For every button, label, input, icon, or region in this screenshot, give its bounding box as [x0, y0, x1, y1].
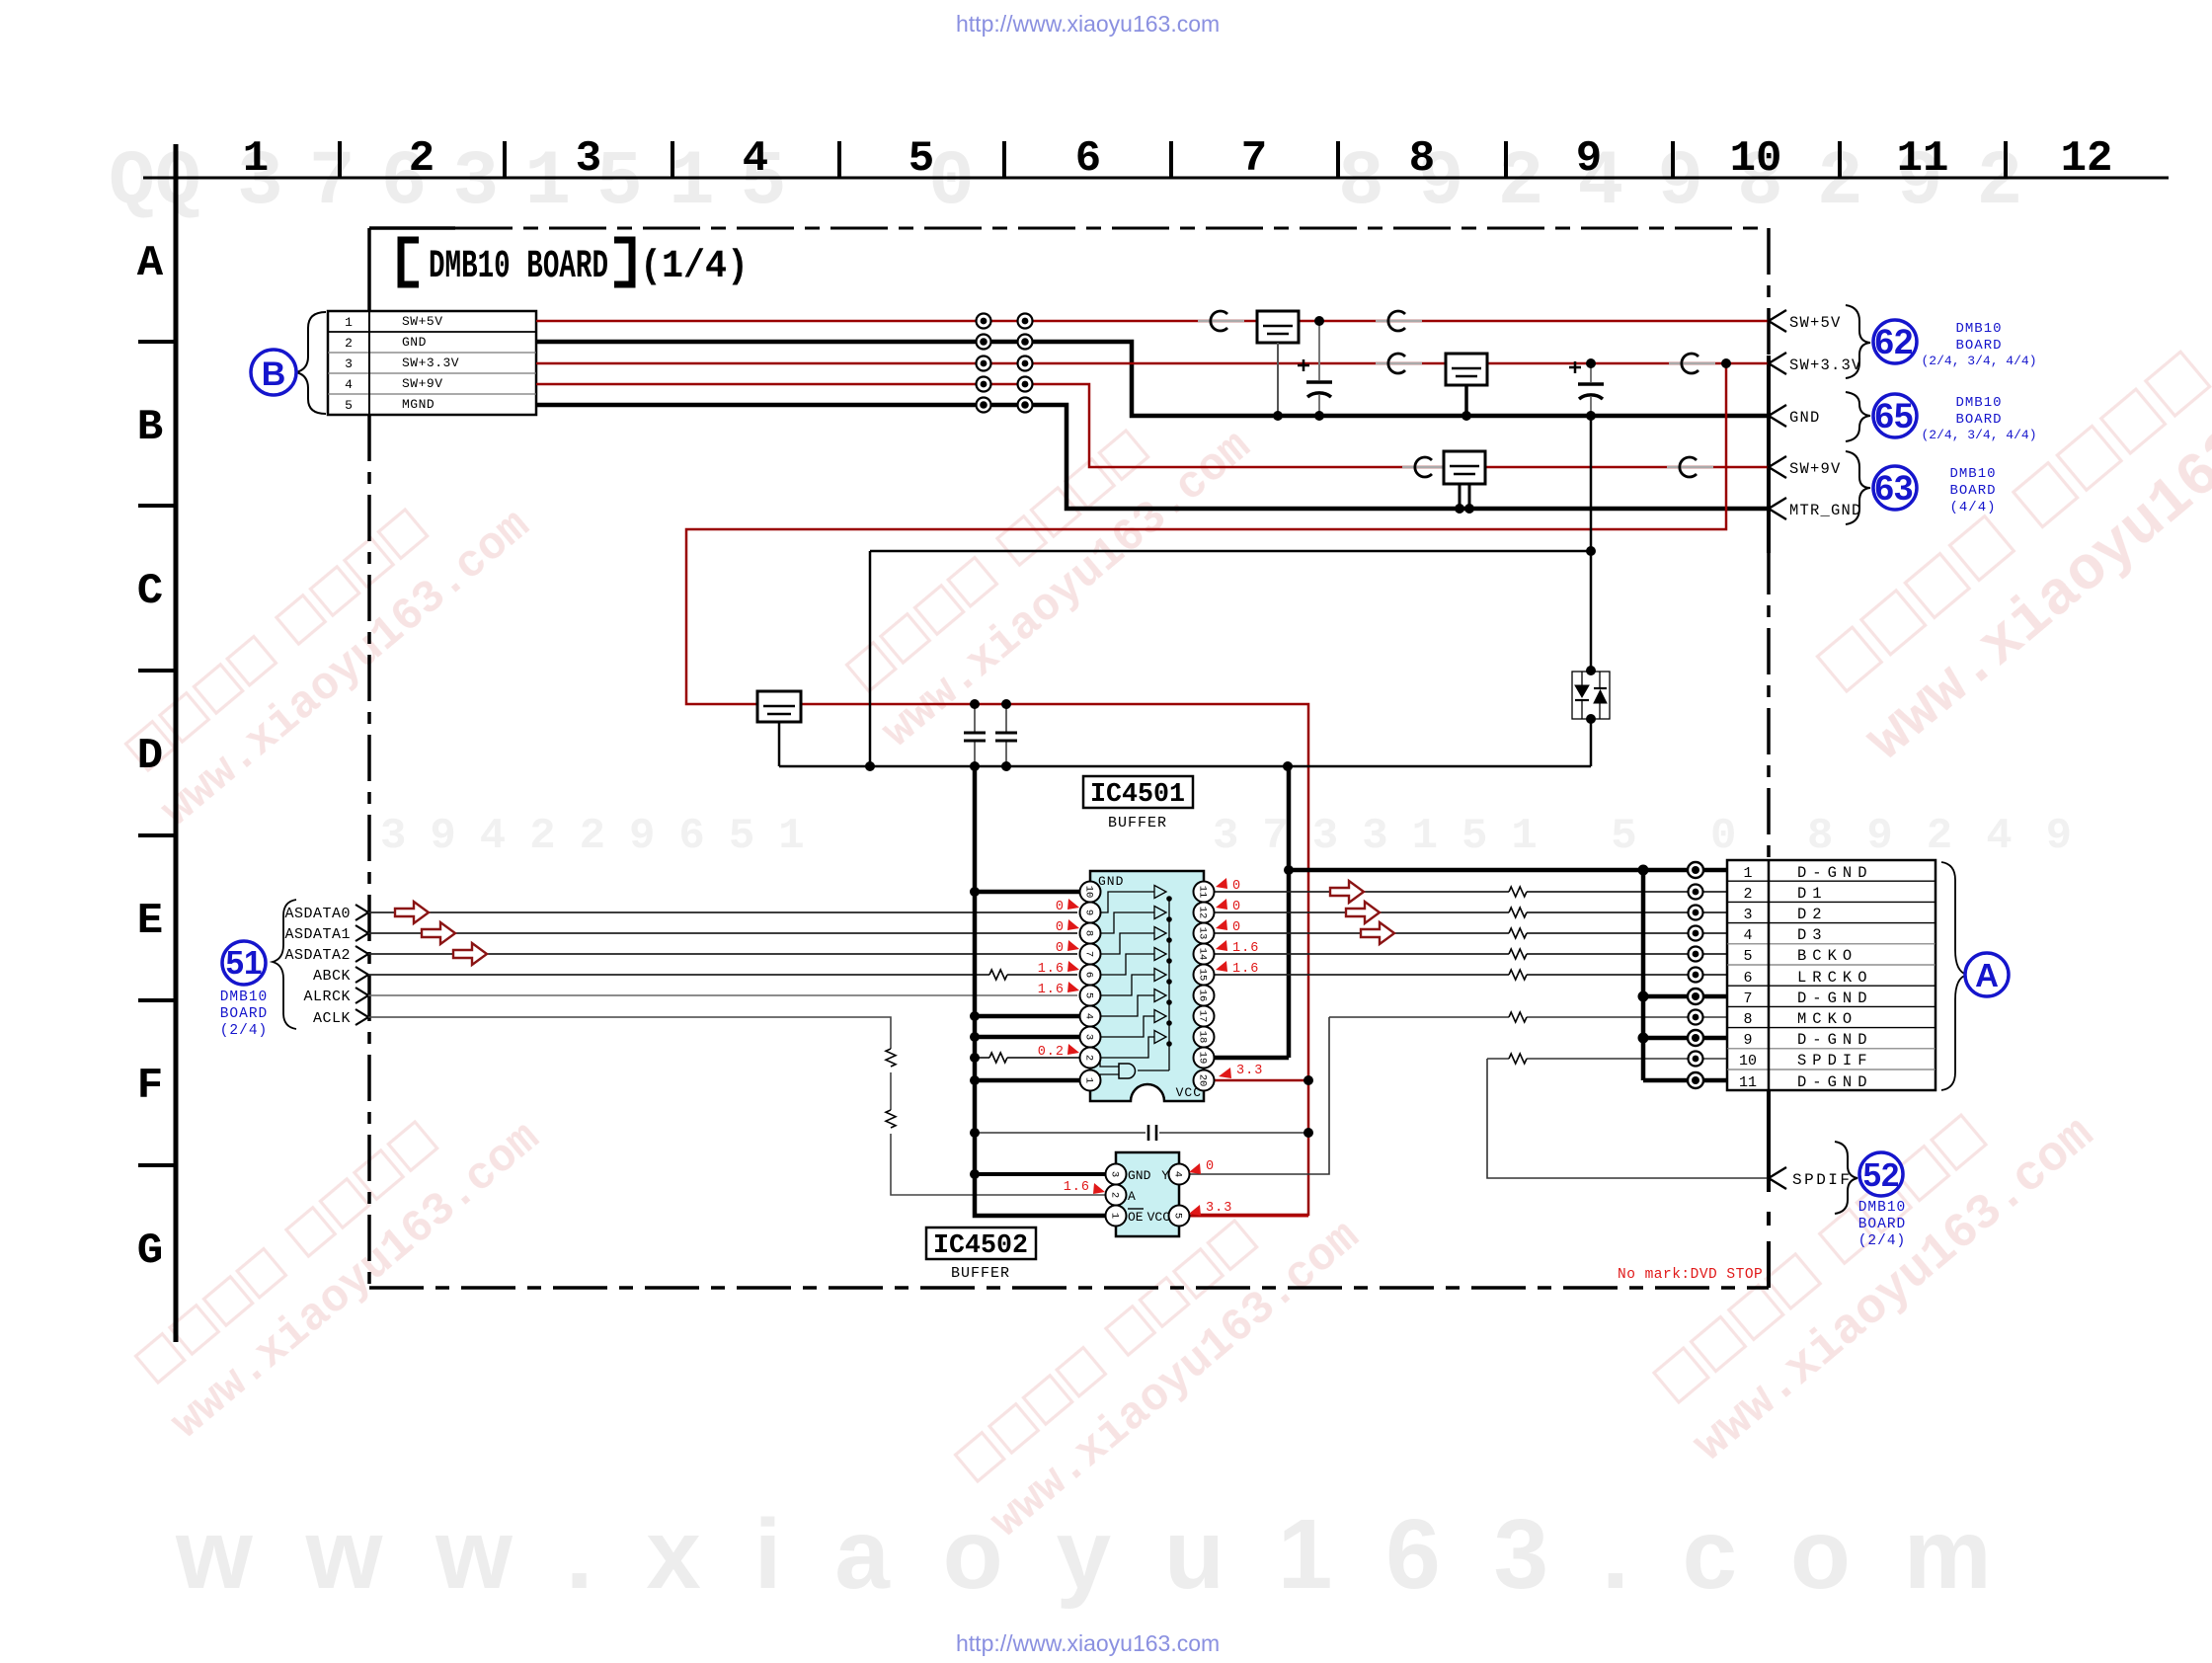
svg-text:D: D: [137, 732, 163, 781]
connector circle 52: [1859, 1152, 1903, 1196]
svg-text:3.3: 3.3: [1206, 1201, 1232, 1216]
wire MCKO row8: [1329, 1016, 1727, 1018]
svg-text:BOARD: BOARD: [1955, 338, 2002, 354]
svg-text:D3: D3: [1797, 926, 1828, 944]
svg-text:3733151 5 0: 3733151 5 0: [1213, 812, 1760, 861]
wire SPDIF to border: [1487, 1059, 1769, 1178]
svg-text:9: 9: [1083, 910, 1095, 915]
svg-text:3: 3: [576, 134, 601, 184]
label DMB10 BOARD 51: [220, 990, 269, 1039]
resistor vertical #2 on ACLK: [886, 1110, 896, 1128]
svg-text:1: 1: [345, 315, 353, 330]
svg-text:SW+9V: SW+9V: [402, 376, 443, 391]
svg-text:2: 2: [409, 134, 434, 184]
arrowhead MTR_GND out: [1769, 498, 1786, 519]
svg-text:2: 2: [1743, 886, 1752, 903]
svg-text:www.xiaoyu163.com: www.xiaoyu163.com: [152, 500, 540, 836]
svg-text:1.6: 1.6: [1038, 962, 1065, 977]
pink diagonal watermarks: [115, 265, 2212, 1548]
arrowhead SW+9V out: [1769, 456, 1786, 478]
brace 62: [1846, 305, 1870, 378]
electrolytic cap C+ on SW+3.3V: [1569, 361, 1604, 417]
svg-text:4: 4: [345, 377, 353, 392]
svg-text:C: C: [137, 567, 163, 616]
svg-text:GND: GND: [1098, 874, 1124, 889]
vias at connector A: [1688, 862, 1703, 1088]
svg-text:52: 52: [1863, 1156, 1900, 1193]
svg-text:12: 12: [1197, 907, 1209, 919]
GND stub row7: [1643, 994, 1727, 999]
hollow arrow on ASDATA0: [395, 902, 429, 923]
brace B: [296, 312, 326, 414]
brace A: [1941, 862, 1967, 1090]
connector A table: [1727, 860, 1935, 1090]
svg-text:0.2: 0.2: [1038, 1045, 1065, 1060]
svg-text:11: 11: [1739, 1074, 1757, 1091]
svg-text:SW+3.3V: SW+3.3V: [402, 356, 459, 370]
svg-text:89249: 89249: [1807, 812, 2105, 861]
svg-text:D1: D1: [1797, 885, 1828, 903]
svg-text:3.3: 3.3: [1236, 1064, 1263, 1078]
board outline right (dash-dot): [1767, 228, 1771, 860]
svg-text:BOARD: BOARD: [1949, 483, 1996, 499]
pin numbers: [1083, 886, 1209, 1087]
svg-text:4: 4: [1743, 927, 1752, 944]
column ticks: [340, 141, 2006, 178]
wire pin3 GND stub: [975, 1172, 1108, 1176]
GND bus vertical x987: [975, 766, 1108, 1216]
svg-text:(2/4, 3/4, 4/4): (2/4, 3/4, 4/4): [1921, 354, 2036, 368]
svg-text:4: 4: [1083, 1013, 1095, 1019]
svg-text:51: 51: [226, 944, 263, 981]
wire ACLK down to IC4502: [368, 1017, 1108, 1195]
svg-text:BOARD: BOARD: [1858, 1217, 1907, 1232]
svg-text:SW+5V: SW+5V: [1789, 314, 1842, 332]
svg-text:MGND: MGND: [402, 397, 434, 412]
wire ASDATA1: [368, 932, 1077, 934]
svg-text:0: 0: [1232, 900, 1241, 914]
svg-text:2: 2: [345, 336, 353, 351]
wire pin19 GND to riser: [1212, 1056, 1289, 1061]
svg-text:1: 1: [1109, 1213, 1121, 1219]
svg-text:MCKO: MCKO: [1797, 1010, 1857, 1028]
svg-text:7: 7: [1743, 990, 1752, 1007]
connector circle 65: [1873, 394, 1917, 437]
red probe arrows IC4502: [1093, 1163, 1201, 1216]
IC4502 body: [1116, 1152, 1179, 1236]
svg-text:0: 0: [1206, 1159, 1215, 1174]
wire MGND (thick): [536, 405, 1769, 509]
title bracket right: [614, 240, 632, 284]
resistors on D1,D2,D3,BCKO,LRCKO: [1509, 887, 1527, 980]
svg-text:www.xiaoyu163.com: www.xiaoyu163.com: [1854, 321, 2212, 776]
svg-text:DMB10: DMB10: [220, 990, 269, 1005]
wire ABCK with resistor: [368, 974, 1077, 976]
ruler top line: [143, 177, 2169, 180]
svg-text:63: 63: [1875, 469, 1914, 508]
svg-text:0: 0: [1232, 879, 1241, 894]
svg-text:15: 15: [1197, 969, 1209, 982]
svg-text:IC4502: IC4502: [933, 1231, 1028, 1261]
svg-text:No mark:DVD STOP: No mark:DVD STOP: [1618, 1267, 1763, 1283]
junction dot pin3 bus: [970, 1169, 980, 1179]
row letters: [137, 239, 164, 1276]
svg-text:2: 2: [1109, 1192, 1121, 1198]
decoupling cap C at x1019: [995, 704, 1017, 766]
svg-text:http://www.xiaoyu163.com: http://www.xiaoyu163.com: [956, 11, 1220, 37]
red labels IC4502: [1064, 1159, 1233, 1216]
svg-text:DMB10: DMB10: [1949, 466, 1996, 482]
connector circle 62: [1873, 320, 1917, 363]
svg-text:B: B: [137, 403, 163, 452]
svg-text:BCKO: BCKO: [1797, 947, 1857, 965]
wire ASDATA2: [368, 953, 1077, 955]
board outline left (dash-dot): [367, 415, 371, 1288]
svg-text:1: 1: [243, 134, 269, 184]
svg-text:10: 10: [1730, 134, 1782, 184]
row ticks: [138, 342, 176, 1165]
svg-text:394229651: 394229651: [380, 812, 829, 861]
svg-text:5: 5: [1083, 992, 1095, 998]
board outline top (dash-dot): [455, 227, 1769, 230]
svg-text:19: 19: [1197, 1052, 1209, 1065]
ferrite bead C on SW+3.3V #2: [1669, 354, 1715, 373]
ferrite bead C on SW+9V #1: [1402, 457, 1449, 477]
wire ALRCK: [368, 994, 1077, 996]
svg-text:6: 6: [1743, 970, 1752, 987]
wire SW+9V: [536, 384, 1769, 467]
svg-text:A: A: [1128, 1189, 1136, 1204]
column numbers: [243, 134, 2113, 184]
GND bridge horizontal y558: [870, 550, 1591, 553]
red probe arrows right: [1216, 878, 1231, 1078]
brace 51: [273, 900, 296, 1029]
svg-text:8: 8: [1409, 134, 1435, 184]
GND bus vertical right: [1641, 870, 1646, 1080]
svg-text:2: 2: [1083, 1055, 1095, 1061]
hollow arrow on ASDATA1: [422, 922, 455, 944]
pin labels IC4502: [1128, 1168, 1170, 1225]
EMI filter F4 on 3.3V feed: [757, 691, 801, 766]
vias on power wires: [977, 314, 1033, 413]
svg-text:(4/4): (4/4): [1949, 500, 1996, 515]
svg-text:10: 10: [1739, 1053, 1757, 1069]
svg-text:(2/4, 3/4, 4/4): (2/4, 3/4, 4/4): [1921, 428, 2036, 442]
GND bridge vertical x881: [869, 551, 872, 766]
wire pin4 GND stub: [975, 1014, 1082, 1019]
wire SW+3.3V: [536, 362, 1769, 365]
AGND horizontal wire y776: [779, 765, 1591, 768]
wire pin10 GND stub: [975, 890, 1082, 895]
svg-text:3: 3: [1083, 1034, 1095, 1040]
wire 3.3V feed down from SW+3.3V: [686, 363, 1726, 1215]
svg-text:DMB10: DMB10: [1858, 1200, 1907, 1216]
series capacitor: [1148, 1125, 1156, 1141]
brace 52: [1835, 1142, 1857, 1214]
title bracket left: [401, 240, 419, 284]
electrolytic cap C+ on SW+5V: [1298, 321, 1332, 417]
svg-text:A: A: [1975, 957, 1999, 993]
svg-text:11: 11: [1897, 134, 1949, 184]
svg-text:LRCKO: LRCKO: [1797, 969, 1873, 987]
wire SW+5V: [536, 320, 1769, 323]
svg-text:DMB10: DMB10: [1955, 321, 2002, 337]
red probe arrows left: [1067, 899, 1079, 1055]
label DMB10 BOARD 63: [1949, 466, 1996, 515]
svg-text:ASDATA2: ASDATA2: [284, 947, 351, 964]
svg-text:10: 10: [1083, 886, 1095, 899]
svg-text:12: 12: [2061, 134, 2113, 184]
svg-text:BOARD: BOARD: [1955, 412, 2002, 428]
GND bridge wire upper: [1590, 417, 1593, 671]
svg-text:8: 8: [1083, 930, 1095, 936]
svg-text:ABCK: ABCK: [313, 968, 351, 985]
EMI filter F2 on SW+3.3V: [1446, 354, 1487, 416]
wire pin4 Y to MCKO riser: [1187, 1017, 1329, 1174]
pin names A: [1797, 864, 1873, 1091]
svg-text:GND: GND: [1128, 1168, 1151, 1183]
decoupling cap C at x987: [964, 704, 986, 766]
left frame line: [174, 144, 179, 1342]
svg-text:ASDATA0: ASDATA0: [284, 906, 351, 922]
signal labels: [284, 906, 351, 1027]
svg-text:ACLK: ACLK: [313, 1010, 351, 1027]
hollow arrow on ASDATA2: [453, 943, 487, 965]
connector circle B: [251, 350, 296, 395]
svg-text:GND: GND: [402, 335, 427, 350]
svg-text:7: 7: [1083, 951, 1095, 957]
svg-text:4: 4: [743, 134, 768, 184]
svg-text:SPDIF: SPDIF: [1797, 1052, 1873, 1069]
wire pin2 with resistor: [975, 1057, 1082, 1059]
resistor on pin2 wire: [989, 1053, 1007, 1063]
dual protection diodes: [1572, 672, 1610, 719]
svg-text:ASDATA1: ASDATA1: [284, 926, 351, 943]
svg-text:0: 0: [1056, 920, 1065, 935]
label DMB10 BOARD 65: [1921, 395, 2036, 442]
svg-text:(2/4): (2/4): [220, 1023, 269, 1039]
pin circles IC4502: [1106, 1164, 1190, 1227]
pin numbers IC4502: [1109, 1171, 1184, 1219]
wire diode to AGND: [1590, 719, 1593, 766]
EMI filter F3 on SW+9V: [1444, 451, 1485, 509]
faint digit watermark middle row: [380, 812, 2105, 861]
svg-text:3: 3: [1743, 907, 1752, 923]
svg-text:w w w . x i a o y u 1 6 3 . c: w w w . x i a o y u 1 6 3 . c o m: [175, 1499, 2005, 1610]
wire pin1 GND stub: [975, 1078, 1082, 1083]
svg-text:B: B: [262, 356, 286, 393]
svg-text:SPDIF: SPDIF: [1792, 1171, 1853, 1189]
svg-text:4: 4: [1172, 1171, 1184, 1177]
svg-text:VCC: VCC: [1147, 1210, 1171, 1225]
IC4501 body: [1090, 871, 1204, 1101]
wire SPDIF row10: [1487, 1058, 1727, 1060]
svg-text:SW+9V: SW+9V: [1789, 460, 1842, 478]
wires pins 11-15 to connector A: [1212, 892, 1727, 975]
connector B table: [328, 311, 536, 415]
arrowhead GND out: [1769, 405, 1786, 427]
connector circle A: [1965, 953, 2009, 996]
pin circles left: [1080, 882, 1101, 1091]
wire pin3 GND stub: [975, 1035, 1082, 1040]
arrowhead SW+5V out: [1769, 310, 1786, 332]
junction dots power: [865, 316, 1731, 771]
resistor vertical #1 on ACLK: [886, 1049, 896, 1067]
faint digit watermark top row: [109, 139, 2056, 226]
GND stub row9: [1643, 1036, 1727, 1041]
svg-text:8: 8: [1743, 1011, 1752, 1028]
red voltage labels right: [1232, 879, 1263, 1078]
OE overline: [1128, 1208, 1144, 1210]
svg-text:6: 6: [1075, 134, 1101, 184]
svg-text:QQ: QQ: [109, 139, 201, 226]
hollow arrow on D2: [1346, 902, 1380, 923]
svg-text:1: 1: [1743, 865, 1752, 882]
resistor on ABCK: [989, 970, 1007, 980]
svg-text:5: 5: [1743, 948, 1752, 965]
svg-text:E: E: [137, 897, 163, 946]
svg-text:7: 7: [1241, 134, 1267, 184]
board outline top-left solid: [369, 228, 455, 312]
svg-text:9: 9: [1576, 134, 1602, 184]
label DMB10 BOARD 62: [1921, 321, 2036, 368]
svg-text:SW+3.3V: SW+3.3V: [1789, 356, 1862, 374]
hollow arrow on D3: [1361, 922, 1394, 944]
arrowhead SPDIF out: [1769, 1167, 1786, 1189]
brace 65: [1846, 392, 1870, 441]
svg-text:BOARD: BOARD: [220, 1006, 269, 1022]
svg-text:IC4501: IC4501: [1090, 780, 1185, 810]
connector circle 63: [1873, 466, 1917, 510]
svg-text:D-GND: D-GND: [1797, 1031, 1873, 1049]
IC4502 label box: [926, 1227, 1036, 1259]
svg-text:6: 6: [1083, 972, 1095, 978]
resistor on SPDIF: [1509, 1054, 1527, 1064]
pin circles right: [1194, 882, 1215, 1091]
svg-text:65: 65: [1875, 397, 1914, 436]
svg-text:SW+5V: SW+5V: [402, 314, 443, 329]
output labels: [1789, 314, 1862, 519]
svg-text:www.xiaoyu163.com: www.xiaoyu163.com: [162, 1112, 550, 1449]
svg-text:1.6: 1.6: [1232, 941, 1259, 956]
GND wire to connector A row1: [1289, 868, 1727, 873]
svg-text:3: 3: [345, 356, 353, 371]
svg-text:A: A: [137, 239, 164, 288]
svg-text:3: 3: [1109, 1171, 1121, 1177]
svg-text:MTR_GND: MTR_GND: [1789, 502, 1862, 519]
svg-text:1: 1: [1083, 1077, 1095, 1083]
hollow arrow on D1: [1330, 881, 1364, 903]
svg-text:D2: D2: [1797, 906, 1828, 923]
svg-text:OE: OE: [1128, 1210, 1144, 1225]
GND riser x1305: [1287, 766, 1292, 1058]
svg-text:DMB10: DMB10: [1955, 395, 2002, 411]
svg-text:F: F: [137, 1062, 163, 1111]
svg-text:GND: GND: [1789, 409, 1821, 427]
title text DMB10 BOARD (1/4): [429, 245, 749, 289]
svg-text:(1/4): (1/4): [640, 245, 749, 289]
connector circle 51: [222, 941, 266, 985]
red voltage labels left: [1038, 900, 1065, 1060]
svg-text:0: 0: [1056, 900, 1065, 914]
svg-text:DMB10 BOARD: DMB10 BOARD: [429, 245, 608, 289]
GND stub row11: [1643, 1078, 1727, 1083]
wire pin20 VCC red: [1212, 1079, 1308, 1082]
svg-text:11: 11: [1197, 886, 1209, 899]
IC4501 label box: [1083, 776, 1193, 808]
svg-text:62: 62: [1875, 323, 1914, 361]
ferrite bead C on SW+5V #1: [1198, 311, 1244, 331]
brace 63: [1846, 451, 1870, 524]
svg-text:17: 17: [1197, 1010, 1209, 1023]
svg-text:5: 5: [1172, 1213, 1184, 1219]
wire ASDATA0: [368, 911, 1077, 913]
svg-text:0: 0: [928, 139, 975, 226]
svg-text:D-GND: D-GND: [1797, 864, 1873, 882]
resistor on MCKO: [1509, 1012, 1527, 1022]
EMI filter F1 on SW+5V: [1257, 311, 1299, 416]
svg-text:5: 5: [345, 398, 353, 413]
ferrite bead C on SW+5V #2: [1376, 311, 1422, 331]
ferrite bead C on SW+9V #2: [1667, 457, 1713, 477]
svg-text:9: 9: [1743, 1032, 1752, 1049]
svg-text:(2/4): (2/4): [1858, 1233, 1907, 1249]
svg-text:BUFFER: BUFFER: [951, 1265, 1010, 1282]
svg-text:0: 0: [1232, 920, 1241, 935]
ferrite bead C on SW+3.3V #1: [1376, 354, 1422, 373]
svg-text:16: 16: [1197, 990, 1209, 1002]
svg-text:D-GND: D-GND: [1797, 1073, 1873, 1091]
svg-text:VCC: VCC: [1176, 1085, 1202, 1100]
svg-text:1.6: 1.6: [1038, 983, 1065, 997]
board outline bottom (dash-dot): [369, 1286, 1769, 1290]
svg-text:1.6: 1.6: [1232, 962, 1259, 977]
svg-text:37631515: 37631515: [237, 139, 812, 226]
buffer triangles and OE line: [1100, 886, 1169, 1081]
svg-text:G: G: [137, 1227, 163, 1276]
svg-text:18: 18: [1197, 1031, 1209, 1044]
svg-text:5: 5: [908, 134, 934, 184]
svg-text:D-GND: D-GND: [1797, 990, 1873, 1007]
board outline right solid segment at power outputs: [1767, 356, 1771, 553]
junction dots IC area: [970, 865, 1313, 1138]
svg-text:ALRCK: ALRCK: [303, 989, 351, 1005]
svg-text:14: 14: [1197, 948, 1209, 961]
label DMB10 BOARD 52: [1858, 1200, 1907, 1249]
svg-text:1.6: 1.6: [1064, 1180, 1090, 1195]
gate inside IC4501: [1119, 1064, 1136, 1078]
svg-text:0: 0: [1056, 941, 1065, 956]
svg-text:BUFFER: BUFFER: [1108, 815, 1167, 831]
pin numbers A: [1739, 865, 1757, 1091]
junction dots GND bus A: [1638, 865, 1649, 1044]
wire GND (thick): [536, 342, 1769, 416]
input arrowheads: [355, 905, 368, 1025]
series cap wire to VCC: [975, 1132, 1308, 1134]
svg-text:13: 13: [1197, 927, 1209, 940]
svg-text:www.xiaoyu163.com: www.xiaoyu163.com: [982, 1211, 1370, 1547]
wire pin5 VCC red: [1187, 1215, 1308, 1218]
svg-text:Y: Y: [1161, 1168, 1169, 1183]
arrowhead SW+3.3V out: [1769, 353, 1786, 374]
svg-text:http://www.xiaoyu163.com: http://www.xiaoyu163.com: [956, 1630, 1220, 1656]
